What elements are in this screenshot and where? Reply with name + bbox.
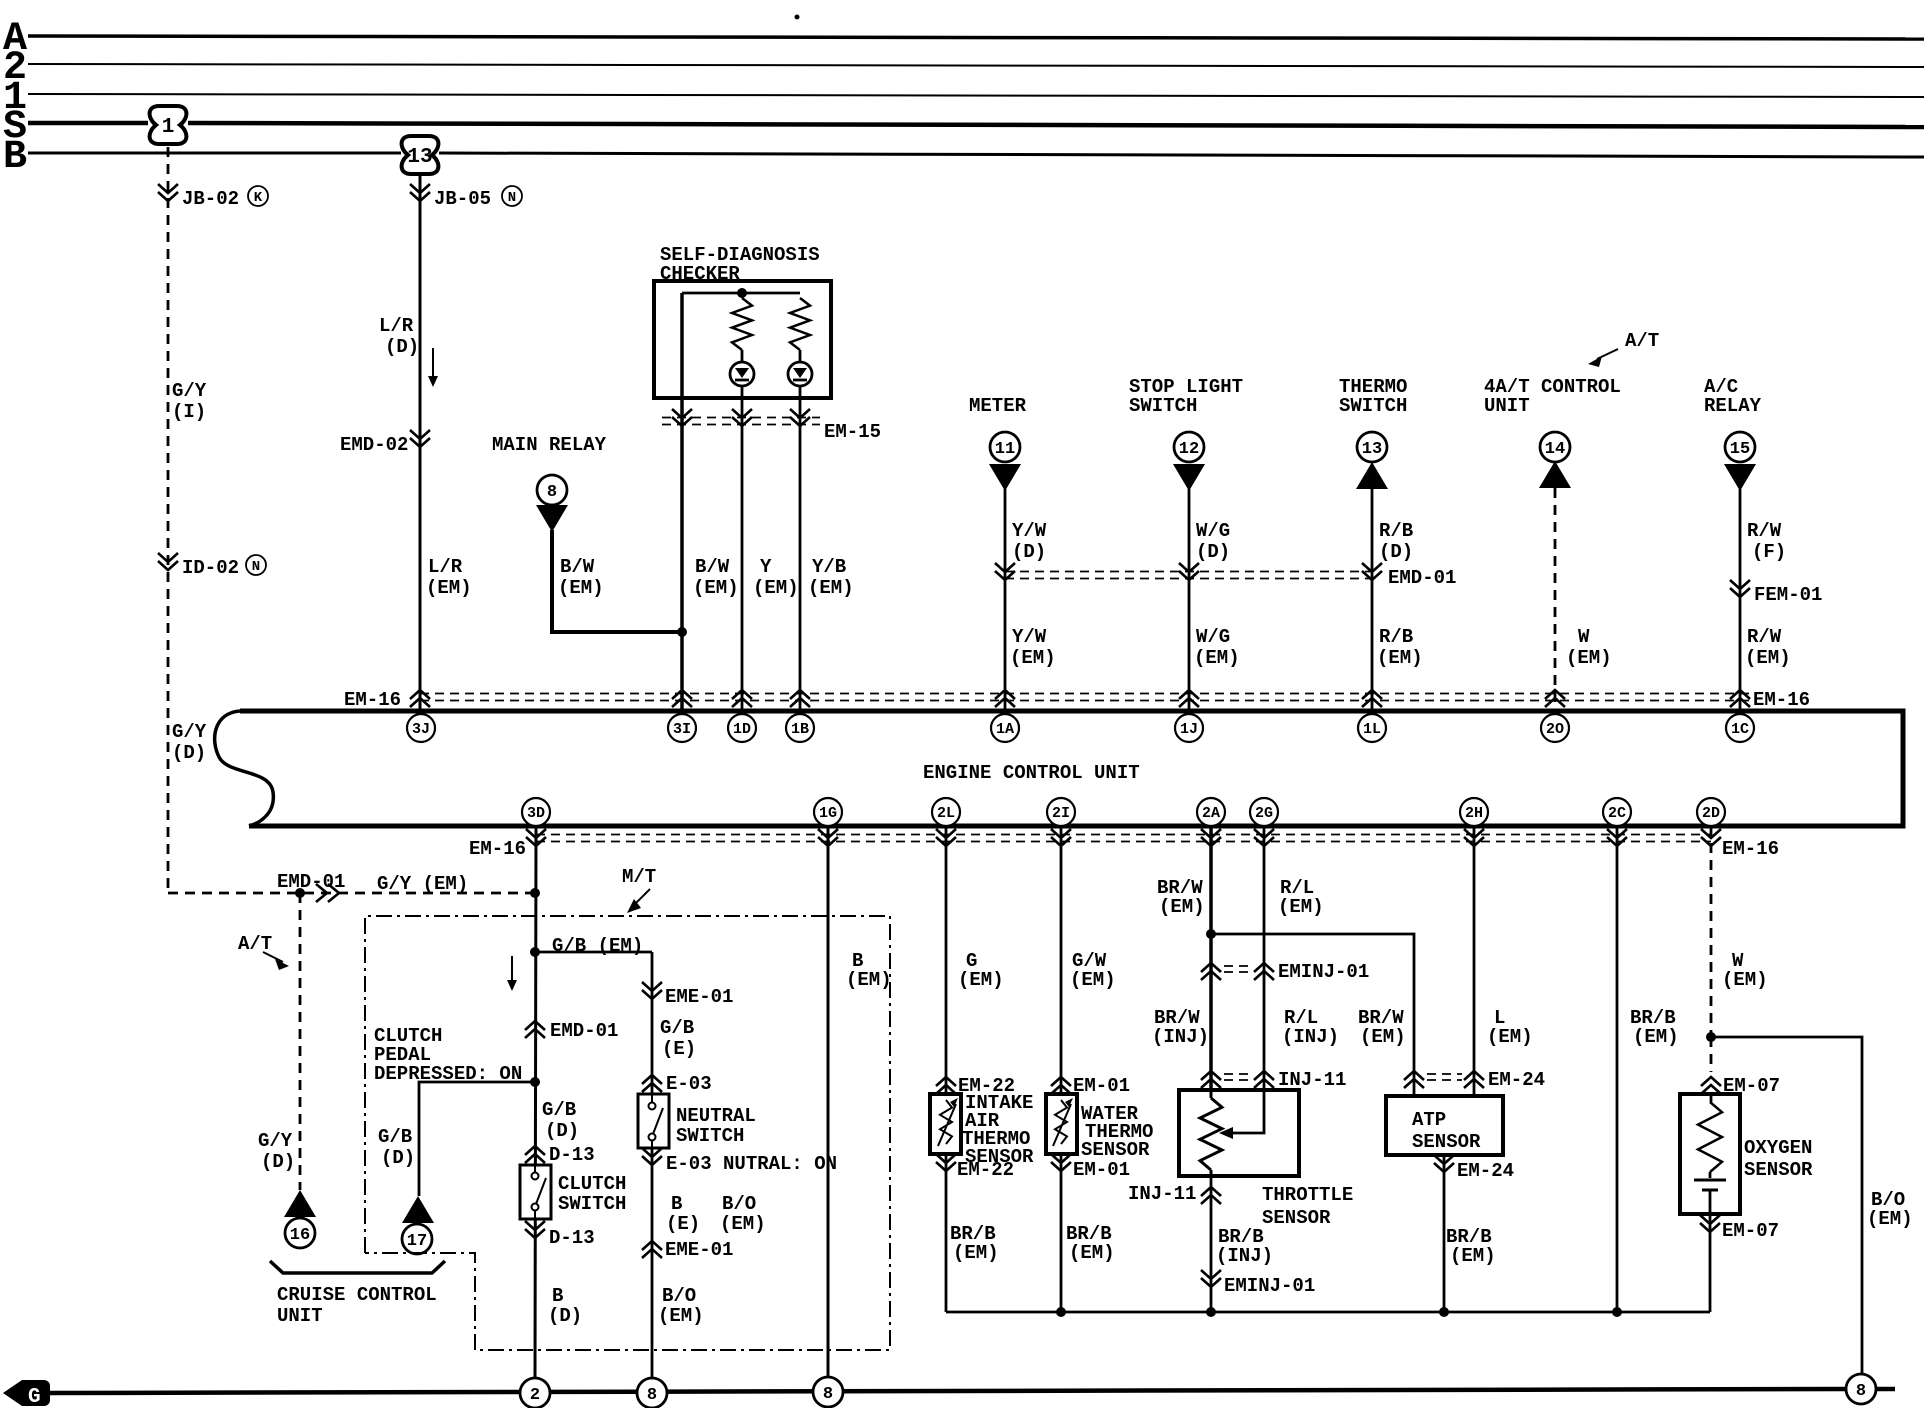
label R/W (F) [1747, 520, 1786, 563]
label BR/W (EM) [1157, 877, 1205, 918]
arrow down from stop light switch [1173, 464, 1205, 491]
label R/L (EM) [1278, 877, 1324, 918]
wire G/B (D) branch to 17 [419, 1082, 535, 1196]
svg-text:(EM): (EM) [1159, 896, 1205, 918]
label L (EM) [1487, 1007, 1533, 1048]
svg-text:EM-16: EM-16 [1753, 689, 1810, 711]
svg-text:CRUISE CONTROL: CRUISE CONTROL [277, 1284, 437, 1306]
svg-text:B/O: B/O [722, 1193, 756, 1215]
junction dot at 3D wire [530, 888, 540, 898]
A/C relay label [1704, 376, 1762, 417]
bus line B [28, 152, 401, 155]
svg-text:EM-01: EM-01 [1073, 1159, 1130, 1181]
svg-text:EM-07: EM-07 [1722, 1220, 1779, 1242]
svg-text:G/B (EM): G/B (EM) [552, 935, 643, 957]
ECU pin 3J [407, 714, 435, 742]
svg-text:SWITCH: SWITCH [1129, 395, 1197, 417]
ECU pin 1G [814, 798, 842, 826]
wire BR/B (INJ) below throttle [1210, 1176, 1213, 1312]
svg-text:E-03 NUTRAL: ON: E-03 NUTRAL: ON [666, 1153, 837, 1175]
connector EM-07 chevron below [1700, 1215, 1779, 1242]
svg-text:(EM): (EM) [1360, 1026, 1406, 1048]
label W/G (D) [1196, 520, 1230, 563]
svg-text:THROTTLE: THROTTLE [1262, 1184, 1353, 1206]
arrow up to cruise control pin 17 [402, 1196, 434, 1223]
junction dot to neutral branch [530, 947, 540, 957]
svg-text:1J: 1J [1180, 721, 1198, 738]
svg-text:(EM): (EM) [1010, 647, 1056, 669]
node 17 [402, 1224, 432, 1254]
svg-text:2H: 2H [1465, 805, 1483, 822]
svg-text:(D): (D) [1012, 541, 1046, 563]
M/T region dash-dot box [365, 916, 890, 1350]
4A/T control unit label [1484, 376, 1621, 417]
svg-text:(EM): (EM) [1069, 1242, 1115, 1264]
ECU pin 2D [1697, 798, 1725, 826]
connector D-13 chevron [525, 1144, 595, 1166]
svg-text:R/B: R/B [1379, 520, 1413, 542]
connector EM-16 top boundary [344, 689, 1810, 711]
ground flag G [3, 1380, 50, 1408]
svg-text:(EM): (EM) [426, 577, 472, 599]
arrow down from meter [989, 464, 1021, 491]
svg-text:(EM): (EM) [846, 969, 892, 991]
svg-text:1B: 1B [791, 721, 809, 738]
wire L (EM) from ECU pin 2H [1473, 826, 1476, 1096]
stop light switch label [1129, 376, 1243, 417]
svg-text:(EM): (EM) [1278, 896, 1324, 918]
svg-text:EM-16: EM-16 [1722, 838, 1779, 860]
svg-text:(D): (D) [381, 1147, 415, 1169]
connector EMD-02 chevron [340, 430, 430, 456]
svg-text:CLUTCH: CLUTCH [558, 1173, 626, 1195]
connector EMD-01 boundary [995, 563, 1456, 589]
connector EMD-01 chevron right [277, 871, 345, 902]
svg-text:1A: 1A [996, 721, 1014, 738]
svg-text:METER: METER [969, 395, 1027, 417]
ECU pin 1L [1358, 714, 1386, 742]
label G/Y (D) [172, 721, 207, 764]
label Y (EM) [753, 556, 799, 599]
svg-text:R/W: R/W [1747, 520, 1782, 542]
intake air thermo sensor label [962, 1092, 1034, 1168]
wire Y to ECU pin 1D [741, 386, 744, 711]
svg-text:1D: 1D [733, 721, 751, 738]
ATP sensor U3 box [1386, 1096, 1503, 1155]
svg-text:W/G: W/G [1196, 626, 1230, 648]
wire down from oxygen sensor [1709, 1214, 1712, 1312]
intake air thermo sensor TH1 [930, 1094, 961, 1154]
water thermo sensor label [1081, 1103, 1153, 1161]
svg-text:(EM): (EM) [1487, 1026, 1533, 1048]
label Y/W (D) [1012, 520, 1047, 563]
svg-text:SENSOR: SENSOR [1262, 1207, 1331, 1229]
wire BR/B (EM) down to collector [1060, 1154, 1063, 1312]
svg-text:(EM): (EM) [720, 1213, 766, 1235]
arrow from main relay [536, 505, 568, 532]
svg-text:L/R: L/R [428, 556, 463, 578]
connector EMINJ-01 chevron below [1201, 1270, 1315, 1297]
node 13 (thermo switch) [1357, 432, 1387, 462]
svg-text:G/B: G/B [542, 1099, 576, 1121]
label W (EM) [1566, 626, 1612, 669]
ECU pin 2I [1047, 798, 1075, 826]
label G/B (D) [542, 1099, 579, 1142]
node 14 [1540, 432, 1570, 462]
svg-text:L/R: L/R [379, 315, 414, 337]
svg-text:Y/W: Y/W [1012, 626, 1047, 648]
label L/R (EM) [426, 556, 472, 599]
arrow up to 4A/T control unit [1539, 461, 1571, 488]
svg-text:A/T: A/T [1625, 330, 1659, 352]
svg-text:W/G: W/G [1196, 520, 1230, 542]
svg-text:(EM): (EM) [1377, 647, 1423, 669]
svg-text:ENGINE CONTROL UNIT: ENGINE CONTROL UNIT [923, 762, 1140, 784]
svg-text:G: G [28, 1386, 41, 1408]
label W (EM) [1722, 950, 1768, 991]
node 8 [1846, 1374, 1876, 1404]
ATP sensor label [1412, 1109, 1481, 1153]
node 13 (connector on bus B) [402, 136, 439, 174]
wire G/Y dashed from node 1 down to EMD-01 jumper [167, 147, 170, 893]
thermo switch label [1339, 376, 1407, 417]
label BR/W (EM) branch [1358, 1007, 1406, 1048]
ECU pin 2C [1603, 798, 1631, 826]
svg-text:(EM): (EM) [1070, 969, 1116, 991]
label G/W (EM) [1070, 950, 1116, 991]
connector EM-22 chevron [936, 1075, 1015, 1097]
svg-text:8: 8 [1856, 1382, 1866, 1401]
svg-text:A/T: A/T [238, 933, 272, 955]
svg-text:G/Y: G/Y [258, 1130, 293, 1152]
svg-text:2A: 2A [1202, 805, 1220, 822]
label BR/B (EM) [1446, 1226, 1496, 1267]
svg-text:1C: 1C [1731, 721, 1749, 738]
wire G (EM) from ECU pin 2L [945, 826, 948, 1096]
flow arrow down [428, 348, 438, 387]
wire R/B to ECU pin 1L [1371, 489, 1374, 711]
connector D-13 chevron below [525, 1221, 595, 1249]
label B/O (EM) [1867, 1189, 1913, 1230]
svg-text:3I: 3I [673, 721, 691, 738]
svg-text:M/T: M/T [622, 866, 656, 888]
wiper R/L wire with arrow [1228, 1090, 1264, 1133]
svg-text:Y/B: Y/B [812, 556, 846, 578]
svg-text:(EM): (EM) [1633, 1026, 1679, 1048]
svg-text:(F): (F) [1752, 541, 1786, 563]
svg-text:EME-01: EME-01 [665, 986, 733, 1008]
label B/W (EM) [693, 556, 739, 599]
ground collector wire [946, 1311, 1710, 1314]
svg-text:(D): (D) [548, 1305, 582, 1327]
svg-text:G/B: G/B [378, 1126, 412, 1148]
svg-text:EMINJ-01: EMINJ-01 [1278, 961, 1369, 983]
svg-text:SENSOR: SENSOR [1744, 1159, 1813, 1181]
clutch switch label [558, 1173, 626, 1215]
ECU pin 1C [1726, 714, 1754, 742]
svg-text:2I: 2I [1052, 805, 1070, 822]
svg-text:R/W: R/W [1747, 626, 1782, 648]
throttle potentiometer resistor [1210, 1090, 1213, 1098]
wire BR/B (EM) down to collector [945, 1154, 948, 1312]
svg-text:8: 8 [823, 1385, 833, 1404]
node 15 [1725, 432, 1755, 462]
bus line A [28, 36, 1924, 39]
svg-text:(D): (D) [261, 1151, 295, 1173]
node 8 (main relay source) [537, 475, 567, 505]
wire W/G to ECU pin 1J [1188, 489, 1191, 711]
svg-text:(INJ): (INJ) [1152, 1026, 1209, 1048]
svg-text:(EM): (EM) [1566, 647, 1612, 669]
svg-text:(EM): (EM) [693, 577, 739, 599]
wire BR/B (EM) down to collector [1443, 1155, 1446, 1312]
svg-text:EM-01: EM-01 [1073, 1075, 1130, 1097]
svg-text:INJ-11: INJ-11 [1128, 1183, 1196, 1205]
cruise control brace [270, 1261, 445, 1273]
svg-text:(D): (D) [172, 742, 206, 764]
svg-text:16: 16 [290, 1226, 310, 1245]
svg-text:(D): (D) [1379, 541, 1413, 563]
connector ID-02 chevron [158, 553, 266, 579]
label G (EM) [958, 950, 1004, 991]
svg-text:R/B: R/B [1379, 626, 1413, 648]
svg-text:SWITCH: SWITCH [676, 1125, 744, 1147]
resistor R1 [732, 298, 752, 350]
svg-text:8: 8 [547, 483, 557, 502]
label R/W (EM) [1745, 626, 1791, 669]
connector INJ-11 chevron below box [1128, 1183, 1221, 1205]
junction dot [737, 288, 747, 298]
label Y/B (EM) [808, 556, 854, 599]
connector JB-05 chevron [410, 184, 522, 210]
svg-text:B: B [671, 1193, 682, 1215]
throttle sensor U2 box [1179, 1090, 1299, 1176]
svg-text:2G: 2G [1255, 805, 1273, 822]
svg-text:ID-02: ID-02 [182, 557, 239, 579]
label BR/B (EM) [950, 1223, 999, 1264]
label R/B (D) [1379, 520, 1413, 563]
connector EMINJ-01 boundary [1201, 961, 1369, 983]
svg-text:2D: 2D [1702, 805, 1720, 822]
svg-text:(I): (I) [172, 401, 206, 423]
svg-text:INJ-11: INJ-11 [1278, 1069, 1346, 1091]
connector E-03 chevron [642, 1073, 712, 1095]
svg-text:SWITCH: SWITCH [558, 1193, 626, 1215]
ECU pin 2H [1460, 798, 1488, 826]
svg-text:B/O: B/O [662, 1285, 696, 1307]
bus line S [28, 121, 148, 126]
label B/O (EM) lower [658, 1285, 704, 1327]
svg-text:EM-24: EM-24 [1488, 1069, 1545, 1091]
svg-text:(EM): (EM) [1867, 1208, 1913, 1230]
label B (D) [548, 1285, 582, 1327]
connector EM-16 bottom boundary [469, 829, 1779, 860]
junction dot [677, 627, 687, 637]
svg-text:W: W [1578, 626, 1590, 648]
svg-text:(EM): (EM) [1745, 647, 1791, 669]
connector EME-01 chevron [642, 982, 733, 1008]
self-diagnosis checker title [660, 244, 820, 285]
ECU pin 3I [668, 714, 696, 742]
connector INJ-11 boundary [1201, 1069, 1346, 1091]
engine control unit U1 box [215, 711, 1903, 826]
svg-text:13: 13 [1362, 440, 1382, 459]
connector EMD-01 chevron [525, 1020, 618, 1042]
connector EM-07 chevron [1701, 1075, 1780, 1097]
svg-text:15: 15 [1730, 440, 1750, 459]
svg-text:(EM): (EM) [1450, 1245, 1496, 1267]
wire B/O (EM) branch right and down to node 8 [1711, 1037, 1862, 1378]
svg-text:K: K [254, 190, 263, 206]
connector JB-02 chevron [158, 184, 268, 210]
connector EM-24 chevron below [1434, 1155, 1514, 1182]
svg-text:(EM): (EM) [808, 577, 854, 599]
internal top wire [682, 292, 800, 295]
svg-text:G/Y (EM): G/Y (EM) [377, 873, 468, 895]
connector EM-01 chevron below [1051, 1154, 1130, 1181]
svg-text:11: 11 [995, 440, 1015, 459]
junction dot A/T branch [295, 888, 305, 898]
ECU pin 1J [1175, 714, 1203, 742]
svg-text:(EM): (EM) [1722, 969, 1768, 991]
svg-text:Y: Y [760, 556, 772, 578]
wire G/Y (D) dashed to cruise control 16 [299, 893, 302, 1190]
svg-text:EME-01: EME-01 [665, 1239, 733, 1261]
wire B/W main relay elbow [552, 530, 682, 632]
arrow down from A/C relay [1724, 464, 1756, 491]
svg-text:(EM): (EM) [753, 577, 799, 599]
svg-text:(INJ): (INJ) [1282, 1026, 1339, 1048]
wire BR/W (EM) from ECU pin 2A [1209, 826, 1213, 1090]
svg-text:(EM): (EM) [1194, 647, 1240, 669]
bus line 1 [28, 94, 1924, 97]
svg-text:N: N [508, 190, 516, 206]
svg-text:N: N [252, 559, 260, 575]
wire R/L from ECU pin 2G [1263, 826, 1266, 1090]
LED 1 [730, 362, 754, 386]
label R/L (INJ) [1282, 1007, 1339, 1048]
wire G/B from ECU pin 3D down to node 2 [535, 826, 536, 1378]
connector FEM-01 chevron [1730, 580, 1822, 606]
wire G/W (EM) from ECU pin 2I [1060, 826, 1063, 1094]
wire G/Y (EM) dashed jumper [168, 892, 535, 895]
svg-text:EMINJ-01: EMINJ-01 [1224, 1275, 1315, 1297]
svg-text:JB-05: JB-05 [434, 188, 491, 210]
svg-text:EM-15: EM-15 [824, 421, 881, 443]
svg-text:17: 17 [407, 1232, 427, 1251]
svg-text:8: 8 [647, 1386, 657, 1405]
svg-text:1L: 1L [1363, 721, 1381, 738]
ground bus G [46, 1389, 1846, 1393]
wire G/B (E) neutral chain [651, 952, 654, 1378]
junction dot B/O branch [1706, 1032, 1716, 1042]
ECU pin 2G [1250, 798, 1278, 826]
A/T note with arrow [1588, 330, 1659, 367]
wire W dashed to ECU pin 2O [1554, 488, 1557, 711]
label BR/B (EM) [1066, 1223, 1115, 1264]
label G/Y (D) [258, 1130, 295, 1173]
wire R/W to ECU pin 1C [1739, 489, 1742, 711]
ECU pin 2A [1197, 798, 1225, 826]
svg-text:(D): (D) [385, 336, 419, 358]
M/T label with arrow [622, 866, 656, 913]
wire B (EM) from ECU pin 1G to node 8 [827, 826, 830, 1378]
ECU pin 1A [991, 714, 1019, 742]
LED 2 [788, 362, 812, 386]
svg-text:EM-22: EM-22 [957, 1159, 1014, 1181]
svg-text:FEM-01: FEM-01 [1754, 584, 1822, 606]
wire B/W left leg of checker down to ECU pin 3I [680, 293, 684, 711]
svg-text:B/W: B/W [560, 556, 595, 578]
label L/R (D) [379, 315, 419, 358]
svg-text:2L: 2L [937, 805, 955, 822]
node 2 [520, 1378, 550, 1408]
svg-text:(EM): (EM) [558, 577, 604, 599]
svg-text:(EM): (EM) [658, 1305, 704, 1327]
resistor R2 [790, 298, 810, 350]
svg-text:13: 13 [407, 146, 432, 169]
cruise control unit label [277, 1284, 437, 1327]
self-diagnosis checker box [654, 281, 831, 398]
connector EM-22 chevron below [936, 1154, 1014, 1181]
svg-text:(D): (D) [1196, 541, 1230, 563]
connector EM-01 chevron [1051, 1075, 1130, 1097]
svg-text:1: 1 [162, 116, 175, 139]
label B/W (EM) main relay [558, 556, 604, 599]
label BR/B (INJ) [1216, 1226, 1273, 1267]
svg-text:2O: 2O [1546, 721, 1564, 738]
svg-text:2C: 2C [1608, 805, 1626, 822]
node 12 [1174, 432, 1204, 462]
ECU pin 2O [1541, 714, 1569, 742]
label R/B (EM) [1377, 626, 1423, 669]
svg-text:JB-02: JB-02 [182, 188, 239, 210]
junction dot clutch pedal branch [530, 1077, 540, 1087]
label G/B (D) branch [378, 1126, 415, 1169]
svg-text:(EM): (EM) [953, 1242, 999, 1264]
svg-text:(E): (E) [666, 1213, 700, 1235]
svg-text:1G: 1G [819, 805, 837, 822]
ECU pin 1D [728, 714, 756, 742]
svg-text:(E): (E) [662, 1038, 696, 1060]
wire Y/W meter to ECU pin 1A [1004, 489, 1007, 711]
svg-text:G/Y: G/Y [172, 380, 207, 402]
node 1 (connector on bus S) [150, 106, 187, 144]
svg-text:SWITCH: SWITCH [1339, 395, 1407, 417]
node 8 [813, 1377, 843, 1407]
connector EME-01 chevron below [642, 1239, 733, 1261]
label BR/B (EM) [1630, 1007, 1679, 1048]
label B (EM) [846, 950, 892, 991]
scan artifact dot [795, 15, 800, 20]
wire branch to neutral switch [535, 951, 652, 954]
svg-text:SENSOR: SENSOR [1081, 1139, 1150, 1161]
svg-text:G/Y: G/Y [172, 721, 207, 743]
svg-text:(INJ): (INJ) [1216, 1245, 1273, 1267]
clutch switch SW1 [520, 1165, 551, 1219]
svg-text:EMD-01: EMD-01 [1388, 567, 1456, 589]
arrow up to cruise control pin 16 [284, 1190, 316, 1217]
oxygen sensor label [1744, 1137, 1813, 1181]
ECU pin 1B [786, 714, 814, 742]
wire L/R from node 13 down to ECU pin 3J [419, 176, 422, 711]
label G/B (E) [660, 1017, 696, 1060]
svg-text:G/B: G/B [660, 1017, 694, 1039]
oxygen sensor U4 box [1680, 1094, 1740, 1214]
neutral switch label [676, 1105, 756, 1147]
ECU pin 2L [932, 798, 960, 826]
svg-text:3D: 3D [527, 805, 545, 822]
